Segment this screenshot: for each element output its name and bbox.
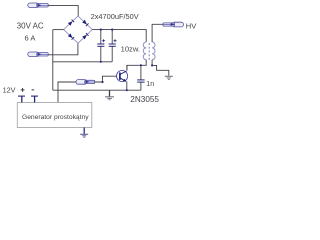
diode D4 (bottom-right edge)	[82, 33, 88, 39]
svg-text:HV: HV	[186, 21, 197, 30]
capacitor C3 1n top lead	[140, 65, 142, 79]
wire J3 to transistor base	[95, 76, 117, 82]
wire collector lead	[126, 65, 128, 70]
supply terminal -	[31, 96, 38, 102]
connector J2 (30V AC input 2)	[28, 52, 48, 57]
svg-text:2x4700uF/50V: 2x4700uF/50V	[91, 12, 139, 21]
ground GND1 (secondary)	[165, 76, 173, 79]
node dot C1 bottom	[100, 61, 102, 63]
transformer TR1 primary winding	[143, 42, 146, 60]
wire J2 to bridge bottom vertex	[48, 43, 78, 55]
svg-text:6 A: 6 A	[25, 33, 36, 42]
capacitor C1 4700uF top lead	[100, 30, 102, 44]
wire bridge left vertex to DC- vertical	[53, 29, 64, 31]
transformer TR1 secondary winding	[152, 42, 155, 60]
capacitor C3 1n plates	[137, 80, 144, 82]
wire bottom rail (DC-)	[53, 89, 141, 91]
diode D3 (left-bottom edge)	[68, 33, 74, 39]
svg-text:Generator prostokątny: Generator prostokątny	[22, 114, 89, 121]
transistor Q1 2N3055	[117, 70, 128, 81]
svg-text:30V AC: 30V AC	[17, 21, 44, 30]
generator box	[17, 103, 92, 128]
bridge rectifier B1 diamond	[64, 16, 93, 43]
node dot C3 top	[140, 64, 142, 66]
capacitor C1 bottom lead	[100, 46, 102, 62]
wire emitter lead	[126, 81, 128, 90]
wire J3 to generator box	[58, 82, 76, 103]
capacitor C1 plates and + mark	[97, 39, 105, 46]
capacitor C2 4700uF top lead	[111, 30, 113, 44]
node dot base jog	[101, 81, 103, 83]
ground GND2 (emitter rail)	[105, 90, 114, 100]
svg-text:1n: 1n	[146, 81, 154, 88]
diode D1 (left-top edge)	[68, 20, 74, 26]
label +	[21, 88, 25, 92]
wire DC- vertical bus	[52, 30, 54, 91]
svg-text:2N3055: 2N3055	[130, 95, 159, 104]
wire top rail (DC+) from bridge right vertex	[92, 30, 146, 42]
capacitor C2 bottom lead	[111, 46, 113, 62]
ground GND3 (generator box)	[80, 128, 88, 138]
wire capacitor bottom bus to DC- vertical	[53, 61, 112, 63]
wire secondary bottom to ground	[152, 60, 169, 76]
capacitor C3 bottom lead	[140, 82, 142, 90]
supply terminal +	[18, 96, 25, 102]
wire primary bottom to collector	[127, 60, 146, 71]
connector J3 (drive jumper)	[76, 80, 95, 85]
transformer TR1 core	[148, 43, 150, 61]
wire secondary top to HV connector	[152, 24, 163, 42]
node dot C1 top	[100, 29, 102, 31]
label -	[32, 89, 35, 91]
svg-text:12V: 12V	[3, 86, 16, 95]
node dot C2 top	[111, 29, 113, 31]
connector J1 (30V AC input 1)	[28, 3, 48, 8]
wire J1 to bridge top vertex	[48, 6, 78, 17]
capacitor C2 plates and + mark	[109, 39, 117, 46]
node dot secondary bottom corner	[151, 64, 153, 66]
connector J4 HV output	[163, 22, 183, 27]
node dot emitter on rail	[126, 89, 128, 91]
diode D2 (top-right edge)	[82, 20, 88, 26]
svg-text:10zw.: 10zw.	[121, 45, 140, 54]
